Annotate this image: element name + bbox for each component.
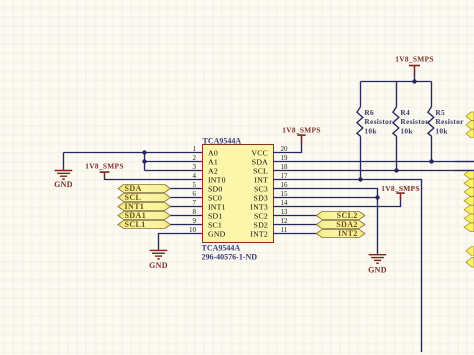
svg-text:6: 6 <box>193 190 197 198</box>
wire pin18 SCL bus <box>273 170 474 172</box>
wire pin14 INT3 to power <box>273 194 401 207</box>
wire pin12 to port SDA2 <box>273 224 316 226</box>
wire pin17 INT to bottom <box>273 180 422 353</box>
svg-text:4: 4 <box>193 172 197 180</box>
svg-text:INT1: INT1 <box>208 203 226 212</box>
svg-text:SCL2: SCL2 <box>337 211 358 220</box>
svg-text:TCA9544A: TCA9544A <box>203 136 242 145</box>
svg-text:SC2: SC2 <box>254 212 268 221</box>
wire vertical A0-A2 tie <box>144 153 146 171</box>
svg-text:R4: R4 <box>400 108 410 117</box>
svg-text:GND: GND <box>368 266 387 275</box>
power 1V8_SMPS pin20 VCC <box>282 125 321 136</box>
svg-text:1: 1 <box>193 145 197 153</box>
wire pin15 SD3 <box>273 197 378 199</box>
wire pin7 INT1 to IC <box>171 206 204 208</box>
svg-text:5: 5 <box>193 181 197 189</box>
wire gnd drop left <box>63 153 65 170</box>
wire pin5 SDA to IC <box>171 188 204 190</box>
power pin stub pin20 <box>301 136 303 144</box>
svg-text:VCC: VCC <box>251 149 268 158</box>
svg-text:Resistor: Resistor <box>400 117 429 126</box>
wire pin13 to port SCL2 <box>273 215 316 217</box>
svg-text:3: 3 <box>193 163 197 171</box>
pin names left column <box>208 149 226 239</box>
svg-text:INT0: INT0 <box>208 176 226 185</box>
IC U1 TCA9544A body <box>203 145 274 243</box>
svg-text:GND: GND <box>149 261 168 270</box>
svg-text:SCL1: SCL1 <box>125 220 146 229</box>
wire pin1 A0 to GND net <box>64 152 204 154</box>
svg-text:SCL: SCL <box>125 193 142 202</box>
port INT1 <box>118 202 171 211</box>
svg-text:SDA2: SDA2 <box>336 220 358 229</box>
port tips cut at right edge (column) <box>464 170 474 231</box>
ground GND below pin10 <box>149 249 168 270</box>
svg-text:R5: R5 <box>435 108 445 117</box>
svg-text:GND: GND <box>54 180 73 189</box>
power pin stub rail <box>414 66 416 75</box>
wire pin10 GND <box>159 234 204 250</box>
port SDA <box>118 184 171 193</box>
wire pin11 to port INT2 <box>273 233 316 235</box>
svg-text:1V8_SMPS: 1V8_SMPS <box>85 162 124 171</box>
port SDA2 <box>316 220 365 229</box>
svg-text:GND: GND <box>208 230 226 239</box>
port SCL1 <box>118 220 171 229</box>
svg-text:INT1: INT1 <box>125 202 145 211</box>
svg-text:1V8_SMPS: 1V8_SMPS <box>395 54 434 63</box>
power 1V8_SMPS pin4 <box>85 162 124 173</box>
svg-text:SC3: SC3 <box>254 185 268 194</box>
port SCL2 <box>316 211 365 220</box>
wire pin19 SDA bus <box>273 161 474 163</box>
node junction rail/power <box>412 79 416 83</box>
svg-text:SD0: SD0 <box>208 185 222 194</box>
node junction R4/SCL <box>394 168 398 172</box>
wire pin20 VCC to power <box>273 136 302 153</box>
port SDA1 <box>118 211 171 220</box>
svg-text:1V8_SMPS: 1V8_SMPS <box>282 125 321 134</box>
power 1V8_SMPS resistor rail <box>395 54 434 66</box>
svg-text:7: 7 <box>193 199 197 207</box>
wire pin4 INT0 from power <box>105 173 204 180</box>
svg-text:SD3: SD3 <box>254 194 268 203</box>
wire SDA bus overdraw right edge <box>455 161 474 163</box>
pin numbers right 20-11 <box>281 145 289 234</box>
node junction R5/SDA <box>429 159 433 163</box>
svg-text:SDA1: SDA1 <box>125 211 147 220</box>
svg-text:SDA: SDA <box>252 158 268 167</box>
svg-text:INT2: INT2 <box>338 229 358 238</box>
port INT2 <box>316 229 365 238</box>
svg-text:INT: INT <box>254 176 268 185</box>
pin names right column <box>250 149 268 239</box>
power pin stub pin14 <box>400 194 402 200</box>
port tip right edge lower 2 <box>466 258 474 268</box>
svg-text:INT3: INT3 <box>250 203 268 212</box>
svg-text:10: 10 <box>189 226 197 234</box>
port tips cut at right edge (upper group) <box>466 112 474 138</box>
svg-text:A2: A2 <box>208 167 218 176</box>
resistor R5 <box>428 82 434 162</box>
svg-text:10k: 10k <box>364 126 377 135</box>
wire pin2 A1 <box>145 161 204 163</box>
svg-text:8: 8 <box>193 208 197 216</box>
node junction SC3/SD3 <box>375 195 379 199</box>
svg-text:TCA9544A: TCA9544A <box>202 244 241 253</box>
ground GND right <box>368 254 387 275</box>
port SCL <box>118 193 171 202</box>
node junction A1 <box>142 159 146 163</box>
wire pin16 SC3 down <box>273 189 378 254</box>
svg-text:1V8_SMPS: 1V8_SMPS <box>381 184 420 193</box>
svg-text:A1: A1 <box>208 158 218 167</box>
pin numbers left 1-10 <box>189 145 197 234</box>
wire power to rail <box>414 66 416 81</box>
node junction A0 <box>142 150 146 154</box>
ground GND left <box>54 169 73 189</box>
wire pin3 A2 <box>145 170 204 172</box>
svg-text:10k: 10k <box>435 126 448 135</box>
resistor R6 <box>357 82 363 180</box>
port tip right edge lower 1 <box>466 246 474 256</box>
node junction R6/INT <box>358 177 362 181</box>
svg-text:SCL: SCL <box>253 167 268 176</box>
svg-text:SD1: SD1 <box>208 212 222 221</box>
resistor R4 <box>393 82 399 171</box>
svg-text:Resistor: Resistor <box>435 117 464 126</box>
svg-text:9: 9 <box>193 217 197 225</box>
wire pin8 SDA1 to IC <box>171 215 204 217</box>
svg-text:A0: A0 <box>208 149 218 158</box>
svg-text:10k: 10k <box>400 126 413 135</box>
svg-text:Resistor: Resistor <box>364 117 393 126</box>
power 1V8_SMPS pin14 <box>381 184 420 194</box>
svg-text:SDA: SDA <box>125 184 142 193</box>
svg-text:SC1: SC1 <box>208 221 222 230</box>
wire pin6 SCL to IC <box>171 197 204 199</box>
svg-text:SD2: SD2 <box>254 221 268 230</box>
svg-text:SC0: SC0 <box>208 194 222 203</box>
wire SCL bus overdraw right edge <box>455 170 474 172</box>
svg-text:INT2: INT2 <box>250 230 268 239</box>
power pin stub pin4 <box>104 173 106 177</box>
svg-text:296-40576-1-ND: 296-40576-1-ND <box>202 252 258 261</box>
svg-text:2: 2 <box>193 154 197 162</box>
svg-text:R6: R6 <box>364 108 374 117</box>
wire pin9 SCL1 to IC <box>171 224 204 226</box>
wire resistor top rail <box>361 81 432 83</box>
